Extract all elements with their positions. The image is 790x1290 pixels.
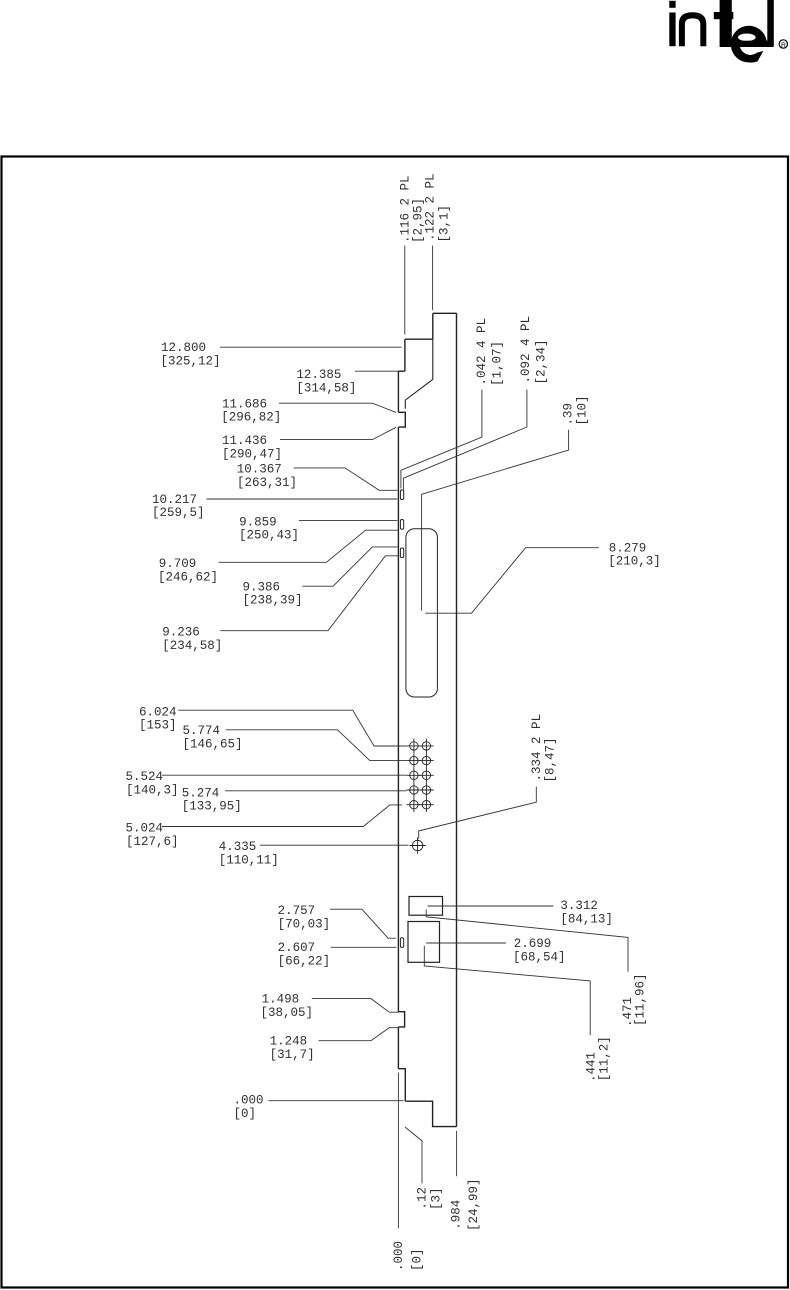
single hole [410, 837, 426, 853]
svg-text:12.800: 12.800 [161, 341, 206, 355]
svg-text:.441: .441 [585, 1052, 599, 1082]
dim leader .39 [422, 430, 569, 611]
inner bend line [405, 339, 433, 409]
svg-text:5.274: 5.274 [182, 786, 220, 800]
dim leader 3.312 [428, 905, 554, 907]
svg-text:10.217: 10.217 [152, 493, 197, 507]
svg-text:9.386: 9.386 [243, 580, 281, 594]
svg-text:6.024: 6.024 [139, 705, 177, 719]
svg-text:11.436: 11.436 [222, 434, 267, 448]
dim leader 12.385 [355, 370, 399, 372]
svg-text:.122 2 PL: .122 2 PL [424, 173, 438, 241]
dim leader .984 [456, 1131, 458, 1176]
svg-text:[250,43]: [250,43] [239, 529, 299, 543]
svg-text:[3]: [3] [430, 1187, 444, 1210]
dim leader .12 [405, 1127, 422, 1183]
svg-text:8.279: 8.279 [609, 541, 647, 555]
svg-text:[2,34]: [2,34] [535, 339, 549, 384]
dim leader .471 [426, 910, 628, 972]
svg-text:[31,7]: [31,7] [270, 1048, 315, 1062]
svg-text:R: R [781, 42, 786, 49]
svg-text:[146,65]: [146,65] [183, 737, 243, 751]
svg-text:1.498: 1.498 [262, 993, 300, 1007]
svg-text:[140,3]: [140,3] [126, 784, 179, 798]
dim leader 5.024 [162, 805, 402, 827]
svg-text:[325,12]: [325,12] [161, 354, 221, 368]
dim leader 10.217 [207, 498, 398, 500]
svg-text:.39: .39 [562, 403, 576, 426]
plated hole row1 col2 [422, 742, 430, 750]
svg-text:[263,31]: [263,31] [237, 476, 297, 490]
svg-text:.042 4 PL: .042 4 PL [475, 318, 489, 386]
svg-text:12.385: 12.385 [296, 368, 341, 382]
svg-text:[238,39]: [238,39] [243, 594, 303, 608]
dim leader 2.699 [426, 942, 506, 944]
svg-text:.092 4 PL: .092 4 PL [519, 316, 533, 384]
dim leader 8.279 [425, 548, 599, 614]
svg-text:[259,5]: [259,5] [152, 506, 205, 520]
svg-text:.12: .12 [416, 1187, 430, 1210]
dim leader 11.686 [279, 403, 396, 412]
rect1 [409, 897, 443, 916]
svg-text:[234,58]: [234,58] [162, 639, 222, 653]
svg-text:[1,07]: [1,07] [491, 341, 505, 386]
svg-text:2.699: 2.699 [514, 937, 552, 951]
dim leader 9.859 [299, 520, 397, 522]
plated hole row3 col1 [410, 771, 418, 779]
dim leader 5.524 [162, 774, 407, 776]
rect2 [408, 922, 440, 963]
svg-text:9.859: 9.859 [239, 515, 277, 529]
dim leader 5.274 [225, 790, 407, 792]
plated hole row4 col2 [422, 786, 430, 794]
svg-text:.984: .984 [450, 1200, 464, 1230]
svg-text:[296,82]: [296,82] [221, 411, 281, 425]
left / right horizontal labels [126, 341, 661, 1121]
svg-text:[24,99]: [24,99] [467, 1178, 481, 1231]
plated hole row2 col2 [422, 756, 430, 764]
dim leader .000 left [269, 1100, 404, 1102]
svg-text:3.312: 3.312 [560, 899, 598, 913]
svg-text:[10]: [10] [576, 395, 590, 425]
dim leader 9.236 [220, 556, 399, 631]
svg-text:[133,95]: [133,95] [182, 800, 242, 814]
svg-text:[84,13]: [84,13] [560, 913, 613, 927]
dim leader 1.248 [319, 1028, 399, 1041]
svg-text:[110,11]: [110,11] [219, 854, 279, 868]
dim leader 9.709 [219, 530, 399, 562]
plated hole row3 col2 [422, 771, 430, 779]
svg-text:[68,54]: [68,54] [513, 951, 566, 965]
svg-text:[314,58]: [314,58] [296, 381, 356, 395]
svg-text:[0]: [0] [411, 1248, 425, 1271]
dim leader 9.386 [302, 547, 398, 586]
leader lines [162, 246, 628, 1229]
svg-text:1.248: 1.248 [270, 1035, 308, 1049]
svg-text:[127,6]: [127,6] [126, 835, 179, 849]
svg-text:[290,47]: [290,47] [222, 447, 282, 461]
svg-text:[70,03]: [70,03] [278, 917, 331, 931]
svg-text:9.236: 9.236 [162, 625, 200, 639]
dim leader 2.607 [331, 946, 397, 948]
svg-text:9.709: 9.709 [159, 557, 197, 571]
holes grid 2x5 [407, 739, 434, 812]
svg-text:[11,2]: [11,2] [598, 1036, 612, 1081]
dim leader 1.498 [312, 999, 399, 1013]
dim leader .092 [403, 390, 527, 490]
dim leader 6.024 [178, 710, 406, 746]
plated hole row1 col1 [410, 742, 418, 750]
dim leader 11.436 [280, 427, 396, 439]
svg-text:.334 2 PL: .334 2 PL [530, 714, 544, 782]
plated hole row2 col1 [410, 756, 418, 764]
svg-text:[11,96]: [11,96] [634, 973, 648, 1026]
svg-text:[246,62]: [246,62] [158, 570, 218, 584]
plated hole row5 col1 [410, 801, 418, 809]
dim leader .042 [401, 390, 482, 489]
svg-text:[210,3]: [210,3] [608, 555, 661, 569]
svg-text:10.367: 10.367 [237, 463, 282, 477]
intel logo [669, 0, 787, 63]
dim leader 2.757 [330, 909, 396, 938]
svg-text:2.607: 2.607 [278, 941, 316, 955]
rotated labels [392, 173, 648, 1271]
svg-text:[153]: [153] [139, 719, 177, 733]
svg-text:[0]: [0] [234, 1107, 257, 1121]
svg-text:.116 2 PL: .116 2 PL [399, 175, 413, 243]
plated hole row4 col1 [410, 786, 418, 794]
svg-text:.000: .000 [234, 1094, 264, 1108]
svg-text:5.524: 5.524 [126, 770, 164, 784]
profile outline [398, 313, 456, 1126]
dim leader .334 [419, 787, 537, 839]
ext line .000 bottom [397, 1073, 399, 1229]
big slot [406, 529, 438, 697]
svg-text:.000: .000 [392, 1241, 406, 1271]
dim leader 12.800 [220, 346, 402, 348]
dim leader .441 [424, 946, 590, 1036]
dim leader 5.774 [226, 730, 407, 761]
pills (4 small slots) [400, 490, 403, 947]
svg-text:5.024: 5.024 [126, 821, 164, 835]
ext line .116 [404, 246, 406, 335]
plated hole row5 col2 [422, 801, 430, 809]
dim leader 10.367 [294, 468, 397, 490]
ext line .122 [432, 246, 434, 311]
svg-text:[38,05]: [38,05] [261, 1006, 314, 1020]
svg-text:5.774: 5.774 [183, 724, 221, 738]
svg-text:[66,22]: [66,22] [278, 955, 331, 969]
svg-text:2.757: 2.757 [278, 904, 316, 918]
svg-text:4.335: 4.335 [219, 840, 257, 854]
dim leader 4.335 [260, 844, 409, 846]
svg-text:[3,1]: [3,1] [438, 205, 452, 243]
svg-text:11.686: 11.686 [222, 397, 267, 411]
svg-text:[8,47]: [8,47] [544, 737, 558, 782]
